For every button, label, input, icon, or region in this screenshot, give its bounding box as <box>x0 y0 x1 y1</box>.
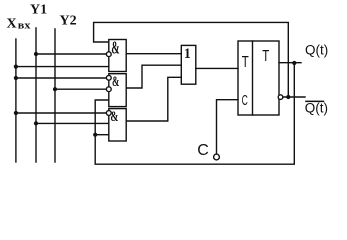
svg-text:Q(t): Q(t) <box>305 42 328 57</box>
svg-text:&: & <box>111 38 119 58</box>
junction dot Q-bar output/feedback <box>286 95 290 99</box>
overline of Q-bar label <box>305 101 324 103</box>
svg-text:X: X <box>7 17 17 32</box>
inversion bubble gate2 input2 <box>106 87 111 92</box>
wire Xвх to gate2 inverted input <box>16 77 106 79</box>
and-gate D2 box <box>109 74 126 107</box>
svg-text:&: & <box>112 74 119 90</box>
svg-text:Q(t): Q(t) <box>305 100 328 115</box>
svg-text:1: 1 <box>184 46 191 62</box>
wire Y1 to gate1 inverted input <box>36 53 106 55</box>
and-gate D3 box <box>109 109 126 141</box>
junction dot Y1/wire6 <box>34 121 38 125</box>
wire Q-bar feedback up and over to gate1 input1 <box>94 22 289 97</box>
wire Xвх to gate3 inverted input <box>16 112 106 114</box>
wire Y2 to gate2 inverted input <box>55 88 106 90</box>
junction dot Xвх/wire5 <box>14 111 18 115</box>
inversion bubble gate3 input1 <box>106 111 111 116</box>
wire gate1 output to OR input1 <box>126 53 181 55</box>
wire gate3 output to OR input3 <box>126 77 181 121</box>
or-gate D4 box <box>181 45 196 84</box>
net Y2 vertical input line <box>54 29 56 162</box>
junction dot Q output/feedback <box>292 61 296 65</box>
svg-text:T: T <box>242 54 249 71</box>
svg-text:C: C <box>197 142 209 159</box>
wire gate2 output to OR input2 <box>126 65 181 88</box>
svg-text:T: T <box>262 48 269 65</box>
svg-text:C: C <box>242 92 248 109</box>
flip-flop U1 box <box>238 41 279 115</box>
wire Q-bar output <box>283 96 305 98</box>
junction dot Xвх/wire3 <box>14 76 18 80</box>
junction dot Q feedback branch <box>93 133 97 137</box>
svg-text:вх: вх <box>18 20 31 32</box>
svg-text:Y1: Y1 <box>30 3 47 18</box>
wire OR output to T input of flip-flop <box>196 67 238 69</box>
net Xвх vertical input line <box>15 39 17 162</box>
wire branch Q feedback to gate3 input3 <box>95 134 109 136</box>
wire Q feedback down and around to gate2 input3 <box>95 63 294 164</box>
net Y1 vertical input line <box>35 28 37 162</box>
wire Xвх to gate1 input <box>16 66 109 68</box>
flip-flop field divider <box>252 41 254 115</box>
svg-text:Y2: Y2 <box>60 14 77 29</box>
terminal circle C input <box>214 154 220 160</box>
wire Y1 to gate3 input <box>36 122 109 124</box>
inversion bubble gate2 input1 <box>106 75 111 80</box>
junction dot Xвх/wire2 <box>14 65 18 69</box>
junction dot Y1/wire1 <box>34 52 38 56</box>
wire C terminal to flip-flop C input <box>217 100 239 154</box>
and-gate D1 box <box>109 40 126 72</box>
inversion bubble on Q-bar output <box>278 95 283 100</box>
inversion bubble gate1 input2 <box>106 52 111 57</box>
wire Q output <box>279 62 301 64</box>
svg-text:&: & <box>110 109 118 125</box>
junction dot Y2/wire4 <box>53 87 57 91</box>
